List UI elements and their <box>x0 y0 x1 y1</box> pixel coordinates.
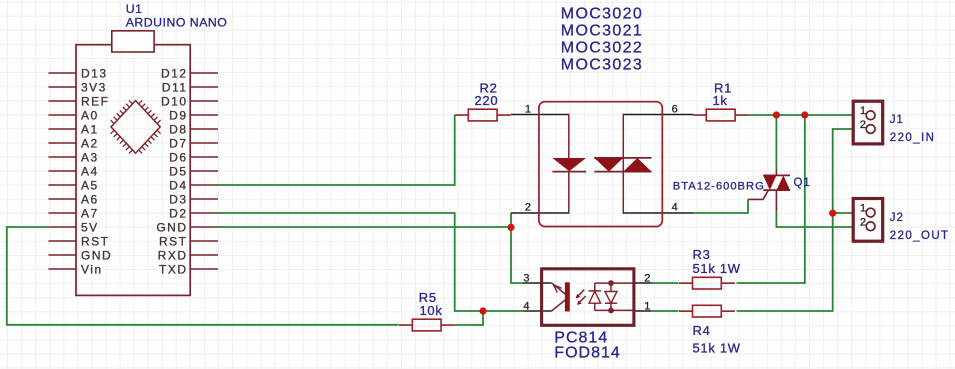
MOC triac right triangle <box>623 158 651 172</box>
PC814 pin3 stub <box>523 282 551 284</box>
svg-text:Vin: Vin <box>81 262 103 276</box>
svg-text:RXD: RXD <box>158 248 188 262</box>
MOC triac left triangle <box>594 158 623 172</box>
svg-text:RST: RST <box>159 234 188 248</box>
wire D2 net (D2 pin down to PC814 pin4 row) <box>217 213 523 311</box>
resistor R2 <box>455 114 469 116</box>
svg-text:D3: D3 <box>169 192 187 206</box>
connector J2 <box>853 199 883 242</box>
svg-text:A7: A7 <box>81 206 99 220</box>
svg-text:REF: REF <box>81 94 110 108</box>
MOC LED triangle <box>552 158 586 171</box>
svg-text:MOC3023: MOC3023 <box>561 57 643 74</box>
svg-text:A6: A6 <box>81 192 99 206</box>
svg-text:1: 1 <box>860 105 866 117</box>
svg-text:1: 1 <box>860 203 866 215</box>
svg-text:U1: U1 <box>126 2 143 16</box>
PC814 pin1 internal line <box>595 309 633 311</box>
MOC pin6 stub <box>623 114 694 116</box>
svg-text:A0: A0 <box>81 108 99 122</box>
PC814 light arrow 2 <box>580 296 586 302</box>
svg-text:3: 3 <box>523 273 529 285</box>
svg-text:220: 220 <box>475 93 499 108</box>
svg-text:R4: R4 <box>693 323 711 338</box>
resistor R3 <box>679 282 693 284</box>
PC814 pin1 stub <box>634 310 652 312</box>
svg-text:MOC3020: MOC3020 <box>561 6 643 23</box>
wire J1 pin2 down to J2 pin1 and R4 <box>737 129 854 311</box>
svg-text:D7: D7 <box>169 136 187 150</box>
svg-text:2: 2 <box>644 273 650 285</box>
svg-text:220_IN: 220_IN <box>890 132 935 144</box>
PC814 right diode bar <box>605 302 617 304</box>
PC814 right diode triangle <box>605 292 617 304</box>
svg-text:A4: A4 <box>81 164 99 178</box>
svg-text:1: 1 <box>525 104 531 116</box>
wire junction down to PC814 pin3 <box>511 227 523 283</box>
svg-text:2: 2 <box>860 217 866 229</box>
wire live net down to R3 <box>737 115 805 283</box>
PC814 phototransistor collector diagonal <box>552 300 566 311</box>
junction dot at R1/Q1 node <box>773 111 780 118</box>
PC814 emitter arrowhead <box>554 285 562 293</box>
wire GND net (GND pin to junction below MOC pin2) <box>217 226 511 228</box>
PC814 left diode bar <box>589 290 602 292</box>
transistor Q1 top bar <box>763 174 790 176</box>
wire R1 right to J1 pin1 <box>749 114 854 116</box>
wire R4 left to PC814 pin1 <box>651 310 678 312</box>
svg-text:D5: D5 <box>169 164 187 178</box>
junction dot at D2/R5/PC814 pin4 node <box>479 307 486 314</box>
svg-text:D9: D9 <box>169 108 187 122</box>
svg-text:J1: J1 <box>890 114 904 126</box>
transistor Q1 right triangle <box>777 175 791 190</box>
MOC triac bottom bar <box>594 171 651 173</box>
svg-text:FOD814: FOD814 <box>554 344 620 361</box>
PC814 bottom junction dot <box>608 308 614 314</box>
svg-text:D10: D10 <box>161 94 188 108</box>
wire R3 left to PC814 pin2 <box>651 282 678 284</box>
svg-text:3V3: 3V3 <box>81 80 107 94</box>
svg-text:J2: J2 <box>890 212 904 224</box>
svg-text:1k: 1k <box>713 93 728 108</box>
PC814 right diode rail <box>610 283 612 310</box>
svg-text:A2: A2 <box>81 136 99 150</box>
opto-triac MOC box <box>539 102 662 227</box>
junction dot at live/R3 node <box>801 111 808 118</box>
svg-text:D4: D4 <box>169 178 187 192</box>
svg-text:4: 4 <box>523 301 529 313</box>
connector J1 <box>853 101 883 144</box>
PC814 pin2 internal line <box>595 282 633 284</box>
MOC triac vertical <box>622 114 624 213</box>
PC814 phototransistor emitter diagonal <box>552 283 566 294</box>
svg-text:1: 1 <box>644 301 650 313</box>
svg-text:GND: GND <box>81 248 112 262</box>
svg-text:Q1: Q1 <box>794 177 811 189</box>
wire R5 right to junction <box>455 311 483 325</box>
transistor Q1 gate lead <box>748 190 768 199</box>
wire D4 net (D4 pin up to R2) <box>217 115 455 185</box>
svg-text:220_OUT: 220_OUT <box>890 230 950 242</box>
svg-text:6: 6 <box>672 104 678 116</box>
MOC LED cathode bar <box>552 171 586 173</box>
svg-text:10k: 10k <box>420 303 443 318</box>
resistor R5 <box>399 324 413 326</box>
IC U1 ARDUINO NANO body <box>76 45 190 296</box>
wire junction to J2 pin1 <box>833 212 854 214</box>
svg-text:A3: A3 <box>81 150 99 164</box>
U1 usb connector rectangle <box>112 31 154 52</box>
svg-text:MOC3021: MOC3021 <box>561 23 643 40</box>
transistor Q1 top pin <box>775 170 777 177</box>
MOC pin4 stub <box>623 212 694 214</box>
svg-text:5V: 5V <box>81 220 99 234</box>
transistor Q1 bottom bar <box>763 189 790 191</box>
MOC triac top bar <box>594 157 651 159</box>
PC814 pin4 stub <box>523 310 551 312</box>
svg-text:2: 2 <box>860 119 866 131</box>
PC814 top junction dot <box>608 280 614 286</box>
resistor R4 <box>679 310 693 312</box>
wire Q1 bottom to J2 pin2 <box>776 211 853 227</box>
svg-text:51k 1W: 51k 1W <box>693 340 741 355</box>
svg-text:RST: RST <box>81 234 110 248</box>
junction dot at GND/MOC pin2 node <box>507 224 514 231</box>
svg-text:51k 1W: 51k 1W <box>693 261 741 276</box>
svg-text:R3: R3 <box>693 247 711 262</box>
svg-text:ARDUINO NANO: ARDUINO NANO <box>126 16 228 30</box>
U1 right pin stubs <box>190 73 218 269</box>
PC814 pin2 stub <box>634 282 652 284</box>
U1 internal chip glyph <box>111 101 160 154</box>
PC814 phototransistor bar <box>565 282 570 311</box>
svg-text:4: 4 <box>672 202 678 214</box>
svg-text:GND: GND <box>156 220 187 234</box>
svg-text:A1: A1 <box>81 122 99 136</box>
resistor R1 <box>693 114 707 116</box>
svg-text:TXD: TXD <box>159 262 188 276</box>
svg-text:D11: D11 <box>162 80 188 94</box>
wire MOC pin4 to Q1 gate <box>693 199 748 213</box>
svg-text:MOC3022: MOC3022 <box>561 40 643 57</box>
MOC pin1 stub <box>511 114 570 116</box>
svg-text:D12: D12 <box>161 66 188 80</box>
transistor Q1 bottom pin <box>775 190 777 212</box>
svg-text:D13: D13 <box>81 66 108 80</box>
wire top junction down to Q1 top <box>775 115 777 170</box>
svg-text:BTA12-600BRG: BTA12-600BRG <box>673 180 765 192</box>
PC814 light arrow 1 <box>579 290 585 296</box>
svg-text:A5: A5 <box>81 178 99 192</box>
PC814 left diode rail <box>594 283 596 310</box>
MOC pin2 stub <box>511 212 570 214</box>
svg-text:D8: D8 <box>169 122 187 136</box>
MOC LED cathode path <box>568 172 570 213</box>
PC814 left diode triangle <box>589 291 601 303</box>
MOC LED anode path <box>568 114 570 158</box>
wire 5V net (5V pin to R5 left) <box>7 227 398 325</box>
wire MOC pin2 jog <box>510 213 512 227</box>
optocoupler PC814 box <box>542 269 634 326</box>
U1 left pin stubs <box>48 73 76 269</box>
svg-text:2: 2 <box>525 202 531 214</box>
svg-text:D6: D6 <box>169 150 187 164</box>
svg-text:D2: D2 <box>169 206 187 220</box>
transistor Q1 left triangle <box>763 175 776 190</box>
junction dot at J1.2/J2.1/R4 node <box>829 210 836 217</box>
